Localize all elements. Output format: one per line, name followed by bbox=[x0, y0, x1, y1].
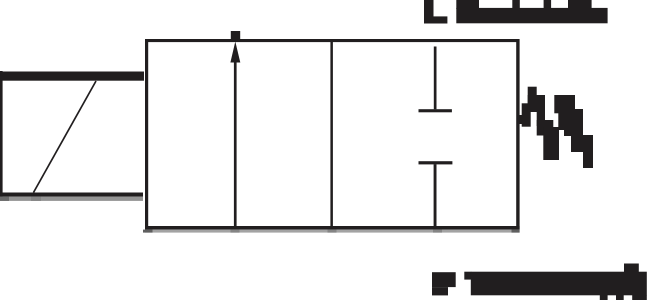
terminal marker (square on top edge) bbox=[231, 31, 240, 41]
transformer T1 (left box with diagonal) bbox=[0, 71, 144, 197]
arrow (adjustment indicator) bbox=[230, 42, 240, 227]
label: top caption (clipped at top edge) bbox=[424, 0, 608, 24]
shadow under box U1 bbox=[143, 230, 520, 233]
box U1 (main unit outline) bbox=[145, 39, 520, 230]
capacitor C1 bbox=[419, 47, 453, 227]
shadow under transformer T1 bbox=[0, 197, 143, 201]
label: bottom caption (clipped at bottom edge) bbox=[432, 264, 647, 300]
wire: divider between sections bbox=[330, 42, 333, 226]
scribble (hand-drawn squiggle at right terminal) bbox=[519, 87, 593, 168]
